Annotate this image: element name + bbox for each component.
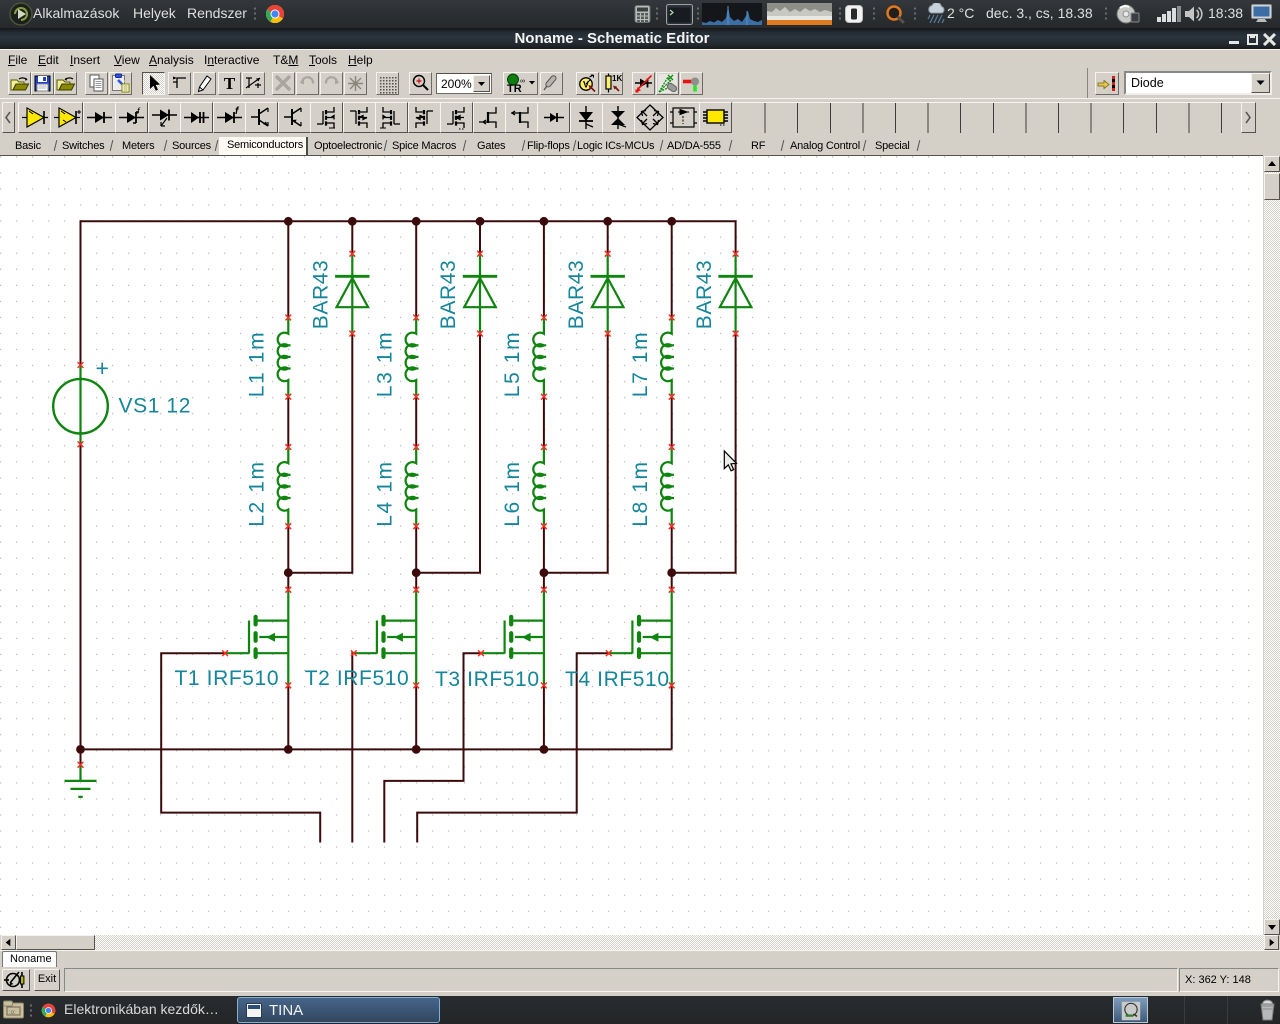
node top rail c6	[603, 217, 612, 226]
pin L6 b	[541, 523, 547, 529]
pin L2 b	[285, 523, 291, 529]
svg-text:T2 IRF510: T2 IRF510	[305, 667, 410, 690]
svg-text:L3 1m: L3 1m	[373, 331, 396, 397]
node top rail c3	[412, 217, 421, 226]
svg-text:+: +	[95, 355, 109, 381]
pin T2 drain	[413, 587, 419, 593]
desktop taskbar	[0, 996, 1280, 1024]
component tab bar	[0, 137, 1280, 156]
schematic canvas	[0, 155, 1263, 156]
pin L5 a	[541, 315, 547, 321]
pin L3 b	[413, 394, 419, 400]
svg-text:L7 1m: L7 1m	[629, 331, 652, 397]
window title bar	[0, 28, 1280, 49]
right tray	[634, 5, 651, 23]
wire T2 gate down	[352, 653, 354, 842]
wire T4 source to bottom rail	[671, 685, 673, 749]
wire D4 to node4	[672, 334, 736, 573]
svg-text:∞: ∞	[520, 78, 525, 85]
toolbar row 1	[0, 68, 1280, 98]
inductor L2	[278, 448, 291, 525]
wire bottom rail	[81, 748, 672, 750]
pin ground	[78, 762, 84, 768]
svg-text:f: f	[137, 106, 141, 116]
pin VS1 +	[78, 362, 84, 368]
pin L7 b	[669, 394, 675, 400]
svg-text:BAR43: BAR43	[310, 260, 333, 330]
wire node2 to T2 drain	[415, 573, 417, 590]
wire D3 to node3	[544, 334, 608, 573]
pin T3 source	[541, 683, 547, 689]
pin T4 source	[669, 683, 675, 689]
svg-text:T4 IRF510: T4 IRF510	[565, 668, 670, 691]
inductor L1	[278, 319, 291, 396]
inductor L8	[661, 448, 674, 525]
svg-text:L1 1m: L1 1m	[246, 331, 269, 397]
wire L7 to L8	[671, 397, 673, 447]
inductor L3	[406, 319, 419, 396]
wire T2 source to bottom rail	[415, 685, 417, 749]
wire node1 to T1 drain	[287, 573, 289, 590]
pin D3 a	[605, 331, 611, 337]
svg-text:L5 1m: L5 1m	[501, 331, 524, 397]
wire col7 top to L7	[671, 220, 673, 317]
document tab row	[0, 950, 1280, 967]
voltage source VS1	[53, 365, 108, 444]
node mid n1	[284, 568, 293, 577]
inductor L6	[533, 448, 546, 525]
svg-text:L2 1m: L2 1m	[246, 460, 269, 526]
wire T1 source to bottom rail	[287, 685, 289, 749]
wire L8 to node4	[671, 526, 673, 573]
wire col8 top to D4	[735, 220, 737, 253]
pin L3 a	[413, 315, 419, 321]
node mid n4	[667, 568, 676, 577]
node top rail c4	[476, 217, 485, 226]
svg-text:VS1 12: VS1 12	[119, 395, 192, 418]
pin L4 b	[413, 523, 419, 529]
wire left column to VS1	[80, 220, 82, 365]
diode D2 BAR43	[463, 255, 497, 332]
node top rail c7	[667, 217, 676, 226]
horizontal scrollbar	[0, 935, 1280, 950]
pin L4 a	[413, 444, 419, 450]
svg-text:V: V	[583, 80, 589, 90]
transistor T3 IRF510	[481, 591, 544, 684]
wire D1 to node1	[288, 334, 352, 573]
wire L1 to L2	[287, 397, 289, 447]
pin L1 a	[285, 315, 291, 321]
wire col2 top to D1	[351, 220, 353, 253]
diode D4 BAR43	[718, 255, 752, 332]
transistor T2 IRF510	[354, 591, 416, 684]
pin L8 a	[669, 444, 675, 450]
svg-text:L6 1m: L6 1m	[501, 460, 524, 526]
wire T4 gate route	[417, 653, 609, 842]
pin T1 source	[285, 683, 291, 689]
wire T3 source to bottom rail	[543, 685, 545, 749]
pin T2 source	[413, 683, 419, 689]
pin L6 a	[541, 444, 547, 450]
menu bar	[0, 49, 1280, 68]
pin T1 drain	[285, 587, 291, 593]
node bottom rail s3	[540, 745, 549, 754]
pin L8 b	[669, 523, 675, 529]
wire col4 top to D2	[479, 220, 481, 253]
svg-text:f: f	[235, 106, 240, 117]
pin D4 a	[733, 331, 739, 337]
wire L2 to node1	[287, 526, 289, 573]
svg-text:T1 IRF510: T1 IRF510	[175, 667, 280, 690]
node top rail c5	[540, 217, 549, 226]
svg-text:BAR43: BAR43	[693, 260, 716, 330]
svg-text:BAR43: BAR43	[437, 260, 460, 330]
node top rail c2	[348, 217, 357, 226]
pin T3 gate	[478, 650, 484, 656]
node bottom rail s2	[412, 745, 421, 754]
svg-text:L8 1m: L8 1m	[629, 460, 652, 526]
inductor L7	[661, 319, 674, 396]
vertical scrollbar	[1264, 156, 1280, 935]
inductor L4	[406, 448, 419, 525]
toolbar row 2	[0, 98, 1280, 137]
pin T4 drain	[669, 587, 675, 593]
desktop top panel	[0, 0, 1280, 28]
wire L6 to node3	[543, 526, 545, 573]
transistor T1 IRF510	[225, 591, 288, 684]
pin T4 gate	[606, 650, 612, 656]
wire col6 top to D3	[607, 220, 609, 253]
diode D3 BAR43	[591, 255, 625, 332]
pin D1 k	[349, 251, 355, 257]
inductor L5	[533, 319, 546, 396]
wire L3 to L4	[415, 397, 417, 447]
mouse cursor	[724, 451, 736, 471]
wire col5 top to L5	[543, 220, 545, 317]
pin D4 k	[733, 251, 739, 257]
wire col1 top to L1	[287, 220, 289, 317]
svg-text::o:: :o:	[9, 1010, 16, 1016]
wire top rail	[81, 220, 736, 222]
pin T3 drain	[541, 587, 547, 593]
svg-text:T3 IRF510: T3 IRF510	[435, 668, 540, 691]
wire D2 to node2	[416, 334, 480, 573]
wire ground stub	[80, 749, 82, 764]
pin D3 k	[605, 251, 611, 257]
pin L5 b	[541, 394, 547, 400]
svg-text:L4 1m: L4 1m	[373, 460, 396, 526]
wire T1 gate route	[161, 653, 320, 842]
node mid n3	[540, 568, 549, 577]
node mid n2	[412, 568, 421, 577]
wire VS1 to bottom rail	[80, 444, 82, 749]
pin L7 a	[669, 315, 675, 321]
diode D1 BAR43	[335, 255, 369, 332]
pin D2 a	[477, 331, 483, 337]
wire L5 to L6	[543, 397, 545, 447]
pin D2 k	[477, 251, 483, 257]
status bar	[0, 967, 1280, 994]
node bottom rail s1	[284, 745, 293, 754]
wire node4 to T4 drain	[671, 573, 673, 590]
transistor T4 IRF510	[609, 591, 672, 684]
svg-text:1K: 1K	[612, 74, 622, 83]
pin L1 b	[285, 394, 291, 400]
node bottom rail gnd	[76, 745, 85, 754]
pin D1 a	[349, 331, 355, 337]
pin VS1 -	[78, 441, 84, 447]
wire L4 to node2	[415, 526, 417, 573]
wire node3 to T3 drain	[543, 573, 545, 590]
wire col3 top to L3	[415, 220, 417, 317]
pin T1 gate	[222, 650, 228, 656]
pin T2 gate	[351, 650, 357, 656]
pin L2 a	[285, 444, 291, 450]
svg-text:BAR43: BAR43	[565, 260, 588, 330]
svg-text:T: T	[224, 74, 236, 93]
ground	[65, 766, 97, 797]
node top rail c1	[284, 217, 293, 226]
wire T3 gate route	[384, 653, 481, 842]
